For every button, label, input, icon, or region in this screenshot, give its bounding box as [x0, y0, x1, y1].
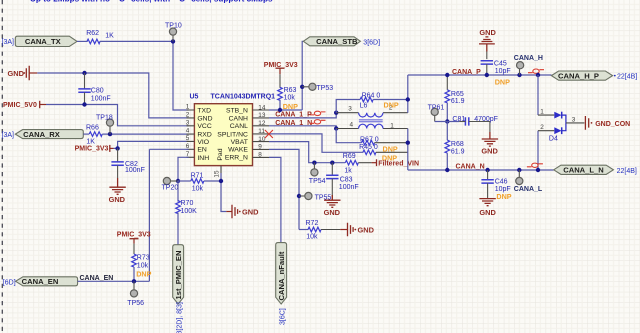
node C45 junction [485, 73, 489, 77]
port CANA_H_P [551, 71, 637, 81]
svg-text:R69: R69 [343, 153, 356, 160]
svg-text:1k: 1k [344, 168, 352, 175]
net label CANA_1_N [275, 120, 325, 127]
port CANA_RX [2, 130, 84, 139]
svg-text:3[6C]: 3[6C] [280, 308, 287, 325]
node R64 right junction [406, 97, 410, 101]
node CANA_H TP junction [517, 73, 521, 77]
testpoint TP20 [162, 177, 179, 191]
wire CANA_RX to R66 [83, 133, 89, 135]
svg-text:R64 0: R64 0 [362, 92, 381, 99]
ground GND at pad15 [226, 205, 259, 219]
ground GND under C82 [109, 178, 126, 204]
testpoint TP53 [302, 83, 333, 92]
wire WAKE pin9 riser [269, 149, 299, 229]
svg-text:CANL: CANL [230, 123, 248, 130]
node CANA_L TP junction [517, 168, 521, 172]
svg-text:TP54: TP54 [309, 178, 326, 185]
svg-text:C83: C83 [340, 176, 353, 183]
svg-text:GND: GND [242, 207, 259, 216]
svg-text:GND: GND [479, 28, 496, 37]
power PMIC_3V3 above R63 [264, 62, 298, 74]
testpoint TP54 [309, 163, 326, 185]
svg-text:GND: GND [8, 69, 25, 78]
svg-text:U5: U5 [190, 94, 199, 101]
diff pair marker P [528, 69, 544, 73]
resistor R65 [445, 75, 465, 122]
svg-text:22[4B]: 22[4B] [617, 168, 637, 175]
svg-text:[6D]: [6D] [3, 279, 16, 286]
node R73 / CANA_EN junction [132, 279, 136, 283]
svg-text:4700pF: 4700pF [474, 116, 498, 123]
svg-text:C45: C45 [494, 61, 507, 68]
svg-text:3: 3 [572, 117, 576, 124]
svg-text:TCAN1043DMTRQ1: TCAN1043DMTRQ1 [211, 94, 276, 101]
wire CANA_N riser and row [408, 129, 554, 171]
svg-text:R68: R68 [451, 141, 464, 148]
svg-text:TXD: TXD [197, 107, 211, 114]
node TP54 junction [312, 161, 316, 165]
svg-text:15: 15 [214, 170, 221, 178]
node R67 right junction [406, 141, 410, 145]
svg-text:R65: R65 [451, 91, 464, 98]
resistor R72 [299, 220, 340, 240]
svg-text:8[2D], 8[3]: 8[2D], 8[3] [177, 302, 184, 333]
port CANA_L_N [554, 165, 637, 175]
power PMIC_3V3 above R73 [117, 232, 151, 244]
wire split row [435, 121, 460, 123]
svg-text:Pad: Pad [217, 148, 224, 160]
svg-text:D4: D4 [549, 135, 558, 142]
svg-text:CANH: CANH [229, 115, 248, 122]
wire D4 common to GND_CON [566, 122, 585, 124]
ground GND above C45 [479, 28, 496, 52]
wire STB_N pin14 to CANA_STB [269, 41, 303, 110]
svg-text:SPLIT/NC: SPLIT/NC [217, 132, 248, 139]
pin names left column [197, 107, 212, 161]
resistor R70 [176, 181, 197, 245]
svg-text:Up to 2Mbps with no "-C" cells: Up to 2Mbps with no "-C" cells, with "-C… [30, 0, 273, 3]
svg-text:2: 2 [540, 124, 544, 131]
svg-text:C81: C81 [452, 116, 465, 123]
testpoint TP61 [428, 105, 445, 122]
svg-text:DNP: DNP [496, 192, 511, 201]
wire EN riser from CANA_EN to pin6 [149, 149, 188, 281]
op-amp U5 TCAN1043DMTRQ1 body [190, 94, 276, 166]
svg-text:2: 2 [186, 112, 190, 119]
svg-text:C46: C46 [495, 178, 508, 185]
node choke pin3 junction [334, 111, 338, 115]
svg-text:22[4B]: 22[4B] [617, 74, 637, 81]
node R63 / STB junction [278, 108, 282, 112]
svg-text:1K: 1K [105, 33, 114, 40]
wire R62 to TXD pin1 [100, 41, 189, 110]
svg-text:3[6D]: 3[6D] [363, 40, 380, 47]
svg-text:CANA_TX: CANA_TX [25, 37, 61, 46]
testpoint TP10 [165, 23, 182, 42]
resistor R71 [178, 172, 221, 192]
svg-text:3: 3 [186, 119, 190, 126]
svg-text:4: 4 [350, 122, 354, 129]
svg-text:CANA_N: CANA_N [456, 163, 485, 170]
svg-text:L6: L6 [360, 103, 368, 110]
svg-text:9: 9 [258, 143, 262, 150]
capacitor C45 [481, 52, 511, 87]
capacitor C80 [78, 73, 110, 105]
svg-text:100nF: 100nF [125, 167, 145, 174]
svg-text:VIO: VIO [197, 139, 209, 146]
pin names right column [217, 107, 248, 161]
node C46 junction [485, 168, 489, 172]
diff pair marker N [527, 163, 543, 167]
testpoint TP56 [127, 281, 144, 307]
node TXD junction [171, 39, 175, 43]
svg-text:GND_CON: GND_CON [595, 121, 630, 128]
svg-text:R73: R73 [137, 255, 150, 262]
testpoint TP55 [299, 192, 331, 201]
node TP20 junction [176, 179, 180, 183]
svg-text:GND: GND [481, 147, 498, 156]
node split row junction [445, 119, 449, 123]
node R71 / pad junction [219, 179, 223, 183]
svg-text:WAKE: WAKE [228, 147, 248, 154]
svg-text:VCC: VCC [197, 123, 211, 130]
svg-text:CANA_EN: CANA_EN [22, 277, 59, 286]
svg-text:STB_N: STB_N [226, 107, 248, 114]
port CANA_nFault vertical [276, 243, 287, 304]
svg-text:1: 1 [390, 122, 394, 129]
port CANA_TX [2, 36, 78, 46]
svg-text:CANA_H: CANA_H [514, 55, 543, 62]
wire CANA_TX to R62 [77, 40, 88, 42]
node C80 bottom [82, 102, 86, 106]
svg-text:CANA_H_P: CANA_H_P [558, 71, 599, 80]
wire SPLIT pin11 to R45 [269, 134, 363, 152]
svg-text:R67 0: R67 0 [360, 137, 379, 144]
ground GND under C81 [481, 132, 498, 156]
power Filtered_VIN [372, 159, 419, 167]
svg-text:R63: R63 [284, 87, 297, 94]
sheet border [1, 0, 3, 333]
svg-text:11: 11 [258, 128, 265, 135]
svg-text:C80: C80 [91, 87, 104, 94]
svg-text:R70: R70 [181, 200, 194, 207]
wire R66 to IC pin4 RXD [102, 133, 188, 135]
svg-text:61.9: 61.9 [451, 98, 465, 105]
node TP18 junction [108, 132, 112, 136]
svg-text:13: 13 [258, 112, 266, 119]
diode D4 lower [538, 123, 566, 170]
resistor R69 [343, 153, 397, 174]
svg-text:10k: 10k [284, 94, 296, 101]
wire PMIC_5V0 to IC pin3 VCC [46, 105, 189, 126]
svg-text:10pF: 10pF [495, 68, 511, 75]
wire CANL pin12 to choke [269, 126, 336, 129]
node C83 junction [330, 161, 334, 165]
svg-text:GND: GND [324, 208, 341, 217]
resistor R45 [359, 144, 408, 155]
resistor R66 [86, 125, 102, 146]
svg-text:DNP: DNP [383, 145, 398, 154]
svg-text:PMIC_5V0: PMIC_5V0 [3, 102, 37, 109]
wire PMIC_3V3 to IC pin5 VIO [114, 141, 189, 148]
capacitor C82 [111, 148, 144, 178]
capacitor C81 [452, 116, 498, 132]
svg-text:CANA_STB: CANA_STB [316, 37, 358, 46]
svg-text:EN: EN [197, 147, 207, 154]
node R68 bottom junction [445, 168, 449, 172]
svg-text:[3A]: [3A] [2, 39, 15, 46]
wire pad15 to GND [221, 173, 226, 212]
svg-text:100nF: 100nF [339, 184, 359, 191]
svg-text:14: 14 [258, 104, 266, 111]
port 1st_PMIC_EN vertical [173, 245, 184, 304]
resistor R62 [86, 30, 114, 44]
node C80 top [82, 71, 86, 75]
svg-text:R66: R66 [86, 125, 99, 132]
svg-text:CANA_nFault: CANA_nFault [277, 251, 286, 300]
svg-text:Filtered_VIN: Filtered_VIN [378, 160, 419, 167]
svg-text:DNP: DNP [136, 269, 151, 278]
svg-text:CANA_L: CANA_L [514, 186, 543, 193]
svg-text:4: 4 [186, 128, 190, 135]
node D4 riser P junction [536, 73, 540, 77]
power PMIC_3V3 left [75, 145, 114, 153]
node TP53 junction [300, 85, 304, 89]
wire ERR_N pin8 to CANA_nFault [269, 157, 281, 242]
svg-text:TP20: TP20 [162, 185, 179, 192]
svg-text:TP56: TP56 [127, 300, 144, 307]
svg-text:100nF: 100nF [91, 95, 111, 102]
svg-text:CANA_EN: CANA_EN [80, 275, 114, 282]
node R65 top junction [445, 73, 449, 77]
U5 left pin stubs 1-7 [187, 110, 195, 157]
pin numbers left [186, 104, 190, 158]
pin numbers right [258, 104, 266, 158]
svg-text:CANA_RX: CANA_RX [23, 130, 60, 139]
svg-text:10: 10 [258, 136, 266, 143]
svg-text:5: 5 [186, 135, 190, 142]
svg-text:INH: INH [197, 155, 209, 162]
svg-text:R62: R62 [86, 30, 99, 37]
node choke pin4 junction [334, 126, 338, 130]
ground GND right of R72 [340, 223, 374, 237]
power GND_CON [585, 116, 630, 130]
svg-text:GND: GND [197, 115, 212, 122]
node VIO / C82 junction [115, 146, 119, 150]
power PMIC_5V0 [3, 101, 46, 109]
svg-text:GND: GND [358, 225, 375, 234]
testpoint CANA_L [514, 170, 543, 193]
wire CANA_EN row [78, 280, 150, 282]
svg-text:ERR_N: ERR_N [225, 154, 248, 161]
svg-text:8: 8 [258, 151, 262, 158]
svg-text:TP61: TP61 [428, 105, 445, 112]
svg-text:R71: R71 [191, 172, 204, 179]
capacitor C83 [326, 163, 359, 200]
node D4 riser N junction [536, 168, 540, 172]
resistor R73 [132, 244, 152, 282]
testpoint TP18 [96, 114, 114, 134]
svg-text:DNP: DNP [283, 102, 298, 111]
svg-text:TP10: TP10 [165, 23, 182, 30]
wire GND rail to IC pin2 [37, 73, 188, 118]
capacitor C46 [481, 170, 511, 201]
svg-text:1: 1 [186, 104, 190, 111]
svg-text:GND: GND [109, 195, 126, 204]
wire INH pin7 to TP20 node [178, 157, 189, 181]
ground GND under C46 [479, 199, 496, 217]
ground GND left power port [8, 66, 38, 81]
svg-text:DNP: DNP [384, 101, 399, 110]
svg-text:TP18: TP18 [96, 114, 113, 121]
svg-text:PMIC_3V3: PMIC_3V3 [75, 146, 109, 153]
svg-text:RXD: RXD [197, 132, 211, 139]
no-connect X pin10 [265, 130, 273, 138]
port CANA_STB [303, 37, 380, 47]
inductor L6 common-mode choke [336, 101, 408, 130]
svg-text:CANA_L_N: CANA_L_N [563, 166, 604, 175]
U5 right pin stubs 14-8 [253, 110, 270, 157]
testpoint CANA_H [514, 55, 543, 75]
wire CANA_P riser and row [408, 75, 552, 113]
svg-text:1st_PMIC_EN: 1st_PMIC_EN [174, 251, 183, 300]
svg-text:1K: 1K [86, 139, 95, 146]
svg-text:100K: 100K [181, 208, 198, 215]
svg-text:DNP: DNP [495, 78, 510, 87]
svg-text:12: 12 [258, 120, 266, 127]
port CANA_EN [3, 277, 78, 287]
resistor R64 bypass [336, 92, 408, 112]
net label CANA_1_P [275, 111, 325, 118]
svg-text:3: 3 [348, 105, 352, 112]
svg-text:TP53: TP53 [316, 85, 333, 92]
svg-text:R72: R72 [306, 220, 319, 227]
diode D4 upper [538, 75, 566, 123]
resistor R68 [445, 122, 465, 171]
svg-text:VBAT: VBAT [231, 139, 248, 146]
svg-text:[3A]: [3A] [2, 132, 15, 139]
svg-text:GND: GND [479, 208, 496, 217]
svg-text:61.9: 61.9 [451, 148, 465, 155]
U5 pad pin 15 stub [220, 166, 222, 173]
svg-text:PMIC_3V3: PMIC_3V3 [117, 232, 151, 239]
resistor R63 [278, 74, 298, 111]
svg-text:CANA_P: CANA_P [452, 69, 481, 76]
wire VBAT pin10 riser [269, 142, 345, 163]
node TP55 junction [297, 194, 301, 198]
resistor R67 bypass [336, 129, 408, 146]
ground GND under C83 [324, 195, 341, 217]
wire CANH pin13 to choke [269, 113, 336, 118]
svg-text:1: 1 [540, 109, 544, 116]
svg-text:10k: 10k [192, 185, 204, 192]
svg-text:10k: 10k [306, 234, 318, 241]
